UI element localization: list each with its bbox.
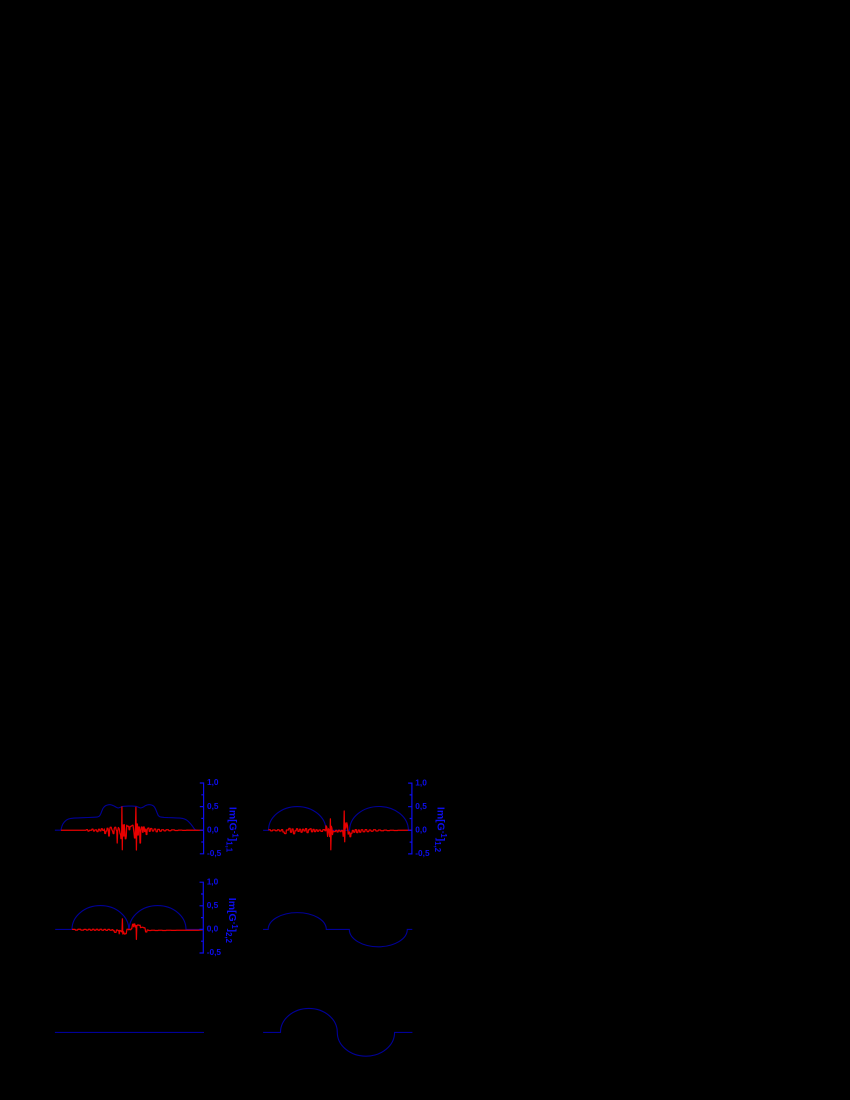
panel1 blue curve bbox=[55, 805, 198, 831]
panel1 axis bbox=[200, 783, 204, 854]
panel3 red curve bbox=[72, 919, 203, 940]
panel2 axis bbox=[408, 783, 412, 854]
svg-text:0,5: 0,5 bbox=[207, 900, 219, 910]
panel3 axis bbox=[200, 882, 204, 953]
svg-text:0,5: 0,5 bbox=[415, 801, 427, 811]
panel1 red curve bbox=[61, 807, 204, 850]
svg-text:-0,5: -0,5 bbox=[207, 947, 222, 957]
svg-text:-0,5: -0,5 bbox=[207, 848, 222, 858]
svg-text:0,0: 0,0 bbox=[207, 824, 219, 834]
svg-text:1,0: 1,0 bbox=[415, 777, 427, 787]
panel2 red curve bbox=[269, 811, 412, 850]
panel3 blue curve bbox=[55, 906, 203, 930]
svg-text:-0,5: -0,5 bbox=[415, 848, 430, 858]
panel5 navy line bbox=[55, 1031, 204, 1033]
svg-text:0,0: 0,0 bbox=[207, 924, 219, 934]
svg-text:1,0: 1,0 bbox=[207, 876, 219, 886]
svg-text:0,5: 0,5 bbox=[207, 801, 219, 811]
panel2 blue curve bbox=[263, 807, 412, 831]
svg-text:0,0: 0,0 bbox=[415, 825, 427, 835]
svg-text:1,0: 1,0 bbox=[207, 777, 219, 787]
panel6 navy curve bbox=[263, 1008, 412, 1056]
panel4 navy curve bbox=[263, 913, 412, 947]
